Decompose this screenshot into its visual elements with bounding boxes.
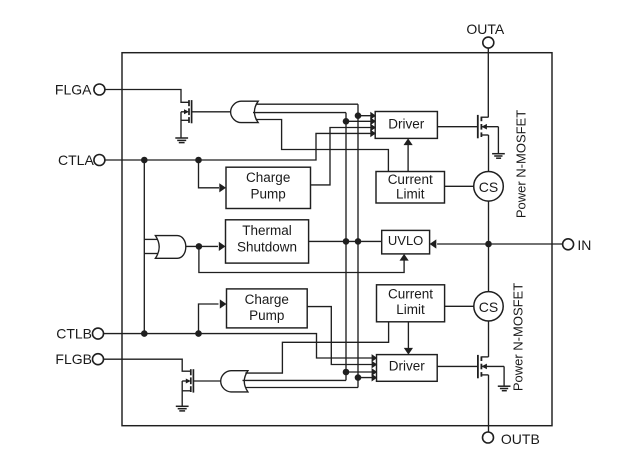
wire CTLA to Driver A input 4 (105, 133, 375, 160)
wire into Driver A input 1 (358, 115, 375, 117)
block Driver A (375, 112, 437, 139)
block Current Limit B (377, 285, 445, 322)
wire OR2 junction to UVLO bottom (199, 246, 404, 272)
svg-text:Shutdown: Shutdown (237, 239, 297, 254)
or-gate OR3 (channel B flag, mirrored output-left) (221, 371, 248, 392)
wire FLGA to Q1 drain (105, 90, 189, 103)
or-gate OR1 (channel A flag, mirrored output-left) (231, 101, 259, 122)
arrowhead into Charge Pump B (220, 299, 227, 308)
wire CTLB tap to Charge Pump B input (199, 304, 219, 334)
node net1/TS line junction (355, 238, 362, 245)
wire Current Limit A output to CS A (445, 185, 474, 187)
wire OR1 top input (256, 103, 358, 105)
node junction net2/driverB3 (343, 369, 350, 376)
svg-text:Thermal: Thermal (242, 223, 292, 238)
node OR2 output junction (196, 243, 203, 250)
wire mid OR bus vertical CTLA-CTLB (143, 160, 145, 334)
wire OR3 output to Q2 gate (193, 380, 220, 382)
arrowhead Driver A input 3 (370, 124, 376, 132)
wire bundle net2 vertical (345, 113, 347, 381)
svg-text:Limit: Limit (396, 302, 425, 317)
wire Current Limit B output to CS B (445, 305, 474, 307)
wire Q4 body to ground (503, 366, 505, 386)
wire CS B to IN line (488, 244, 490, 292)
svg-text:UVLO: UVLO (388, 233, 423, 248)
svg-text:Current: Current (388, 287, 433, 302)
node CS A / CS B / IN junction (485, 241, 492, 248)
svg-text:Charge: Charge (246, 170, 290, 185)
ground (Q2 source) (176, 406, 189, 411)
wire CTLA tap to Charge Pump A input (199, 160, 220, 188)
wire Current Limit B to Driver B (407, 322, 409, 350)
wire into Driver A input 2 (346, 120, 375, 122)
wire OR3 top input to Current Limit B (245, 322, 388, 373)
wire Q4 source to OUTB (488, 375, 490, 432)
block Thermal Shutdown (226, 220, 309, 263)
arrowhead Driver A input 2 (370, 117, 376, 125)
svg-text:Power N-MOSFET: Power N-MOSFET (511, 283, 526, 391)
node CTLB/or-mid tap (141, 330, 148, 337)
svg-text:IN: IN (577, 237, 591, 253)
wire into Driver B input 3 (346, 371, 377, 373)
wire Q4 drain to CS B (488, 321, 490, 357)
transistor Q1 (FLGA open-drain NMOS) (181, 100, 192, 138)
wire Thermal Shutdown output to UVLO (309, 240, 382, 242)
block Driver B (377, 355, 438, 382)
svg-text:FLGA: FLGA (55, 82, 92, 98)
svg-text:Pump: Pump (251, 187, 286, 202)
pin OUTB (483, 431, 540, 447)
svg-text:Power N-MOSFET: Power N-MOSFET (514, 110, 529, 218)
svg-text:Limit: Limit (396, 186, 425, 201)
pin CTLA (58, 152, 105, 168)
wire OR3 bottom input (245, 387, 358, 389)
arrowhead down into Driver B (404, 348, 413, 355)
wire CTLB to Driver B input 1 (104, 334, 377, 358)
arrowhead into Thermal Shutdown (219, 242, 226, 251)
arrowhead up into Driver A (404, 138, 413, 145)
node junction net1/driverB4 (355, 374, 362, 381)
ground (Q4 body) (498, 386, 511, 391)
transistor Q4 (power NMOS B) (478, 355, 504, 378)
pin FLGA (55, 82, 105, 98)
svg-text:Charge: Charge (245, 292, 289, 307)
wire OR1 bottom input to Current Limit A (256, 120, 389, 172)
block UVLO (382, 230, 430, 254)
wire Driver B output to Q4 gate (437, 365, 478, 367)
wire Charge Pump A output to Driver A input 3 (311, 128, 376, 185)
ground (Q1 source) (175, 138, 188, 143)
pin CTLB (56, 326, 103, 342)
svg-text:CTLA: CTLA (58, 152, 94, 168)
block Charge Pump A (226, 167, 311, 208)
wire OR2 output to Thermal Shutdown (186, 245, 218, 247)
wire Q3 source to CS A (488, 135, 490, 172)
pin FLGB (55, 351, 103, 367)
block Current Limit A (376, 172, 445, 204)
current sense CS A (474, 172, 504, 202)
svg-text:CS: CS (479, 299, 498, 315)
svg-text:FLGB: FLGB (55, 351, 92, 367)
node CTLA/or-mid tap (141, 157, 148, 164)
IC boundary box (122, 53, 552, 426)
wire OUTA to Q3 drain (487, 48, 489, 117)
wire Driver A output to Q3 gate (437, 126, 477, 128)
or-gate OR2 (shutdown OR, output right) (155, 236, 185, 259)
pin IN (563, 237, 592, 253)
wire IN line (437, 243, 562, 245)
svg-text:CS: CS (479, 179, 498, 195)
wire OR1 middle input (253, 112, 346, 114)
svg-text:OUTB: OUTB (501, 431, 540, 447)
node CTLB/charge-pump tap (195, 330, 202, 337)
arrowhead left into UVLO from IN (430, 239, 437, 248)
arrowhead Driver B input 4 (372, 374, 378, 382)
arrowhead Driver A input 1 (370, 112, 376, 120)
arrowhead Driver B input 2 (372, 361, 378, 369)
wire bundle net1 vertical (357, 104, 359, 387)
wire OR2 top input stub (144, 238, 158, 240)
wire OR2 bottom input stub (144, 253, 158, 255)
wire into Driver B input 4 (358, 377, 377, 379)
node net2/TS line junction (343, 238, 350, 245)
transistor Q3 (power NMOS A) (478, 115, 499, 138)
wire Q3 body to ground (497, 127, 499, 154)
svg-text:CTLB: CTLB (56, 326, 92, 342)
svg-text:Driver: Driver (388, 116, 425, 131)
arrowhead Driver A input 4 (370, 130, 376, 138)
svg-text:Pump: Pump (249, 308, 284, 323)
wire CS A to IN line (488, 201, 490, 244)
current sense CS B (474, 292, 503, 321)
arrowhead Driver B input 3 (372, 368, 378, 376)
arrowhead into Charge Pump A (219, 183, 226, 192)
node CTLA/charge-pump tap (195, 157, 202, 164)
svg-text:Driver: Driver (389, 358, 426, 373)
node junction net1/driverA1 (355, 112, 362, 119)
arrowhead Driver B input 1 (372, 354, 378, 362)
svg-text:OUTA: OUTA (466, 21, 505, 37)
transistor Q2 (FLGB open-drain NMOS) (182, 369, 193, 406)
wire OR1 output to Q1 gate (192, 111, 231, 113)
wire FLGB to Q2 drain (104, 359, 191, 371)
wire Charge Pump B output to Driver B input 2 (307, 307, 376, 365)
wire OR3 middle input (243, 379, 347, 381)
wire Current Limit A to Driver A (407, 143, 409, 172)
node junction net2/driverA2 (343, 118, 350, 125)
block Charge Pump B (227, 289, 308, 328)
pin OUTA (466, 21, 505, 48)
ground (Q3 body) (492, 154, 505, 159)
svg-text:Current: Current (388, 172, 433, 187)
arrowhead up into UVLO (400, 254, 409, 261)
